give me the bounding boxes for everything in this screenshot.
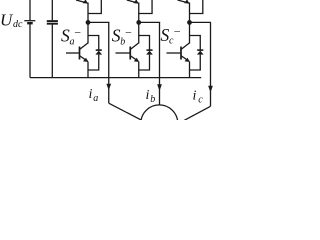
- label ib: [146, 88, 156, 105]
- wire leg b vertical: [138, 3, 140, 44]
- node A junction dot: [86, 20, 91, 25]
- diode Da+ loop wire: [88, 0, 101, 14]
- current arrow ic: [208, 86, 213, 93]
- svg-text:c: c: [198, 94, 203, 105]
- wire Sa- emitter vertical: [87, 62, 89, 78]
- diode Db- triangle: [146, 51, 153, 55]
- diode Dc+ loop wire: [190, 0, 203, 14]
- transistor Sa+ emitter wire (cut at top): [76, 0, 88, 3]
- wire leg c vertical: [189, 3, 191, 44]
- transistor Sb- collector diagonal: [131, 43, 139, 49]
- transistor Sc- collector diagonal: [181, 43, 189, 49]
- transistor Sb- emitter diagonal: [131, 56, 139, 61]
- transistor Sa- emitter arrow: [83, 58, 88, 62]
- label Sb-: [112, 25, 133, 47]
- wire phase c horizontal: [190, 21, 211, 23]
- battery V1 negative plate: [27, 22, 33, 24]
- transistor Sc+ emitter arrow: [184, 0, 189, 4]
- wire Sb- emitter vertical: [138, 62, 140, 78]
- node C junction dot: [187, 20, 192, 25]
- transistor Sc- gate lead: [167, 52, 181, 54]
- wire phase b horizontal: [139, 21, 160, 23]
- diode Db+ loop wire: [139, 0, 152, 14]
- svg-text:b: b: [150, 94, 155, 105]
- label Sc-: [161, 25, 182, 47]
- svg-text:−: −: [173, 25, 181, 39]
- label ia: [89, 87, 99, 104]
- transistor Sb- gate bar: [129, 47, 131, 60]
- wire phase c vertical: [210, 22, 212, 106]
- wire leg a vertical: [87, 3, 89, 44]
- label U_dc: [0, 10, 23, 30]
- node B junction dot: [136, 20, 141, 25]
- svg-text:i: i: [193, 88, 197, 103]
- diode Db- branch top wire: [139, 36, 150, 51]
- transistor Sc- emitter arrow: [185, 58, 190, 62]
- diode Da- triangle: [95, 51, 102, 55]
- diode Dc- branch bottom wire: [190, 55, 201, 70]
- transistor Sc- emitter diagonal: [181, 56, 189, 61]
- wire phase b vertical: [159, 22, 161, 105]
- transistor Sc+ emitter wire (cut at top): [178, 0, 190, 3]
- transistor Sa+ emitter arrow: [83, 0, 88, 4]
- wire Sc- emitter vertical: [189, 62, 191, 78]
- diode Da- cathode bar: [96, 49, 102, 51]
- diode Dc- branch top wire: [190, 36, 201, 51]
- motor M circle: [141, 105, 178, 142]
- transistor Sb+ emitter wire (cut at top): [127, 0, 139, 3]
- transistor Sa- gate bar: [79, 47, 81, 60]
- svg-text:i: i: [146, 88, 150, 103]
- wire capacitor bottom: [51, 25, 53, 78]
- wire phase a horizontal: [88, 21, 109, 23]
- bottom dc bus wire: [30, 77, 201, 79]
- wire capacitor top: [51, 0, 53, 20]
- diode Da- branch top wire: [88, 36, 99, 51]
- svg-text:−: −: [124, 25, 132, 39]
- transistor Sa- collector diagonal: [80, 43, 88, 49]
- diode Dc- triangle: [197, 51, 204, 55]
- svg-text:i: i: [89, 87, 93, 102]
- wire phase a diagonal to motor: [109, 103, 141, 120]
- svg-text:U: U: [0, 10, 14, 29]
- diode Db- branch bottom wire: [139, 55, 150, 70]
- svg-text:a: a: [93, 93, 98, 104]
- current arrow ia: [106, 84, 111, 91]
- diode Dc- cathode bar: [197, 49, 203, 51]
- wire battery bottom: [29, 24, 31, 78]
- capacitor C1 top plate: [47, 20, 58, 22]
- diode Da- branch bottom wire: [88, 55, 99, 70]
- battery V1 positive plate: [24, 20, 35, 22]
- diode Db- cathode bar: [146, 49, 152, 51]
- wire battery top: [29, 0, 31, 20]
- transistor Sc- gate bar: [180, 47, 182, 60]
- svg-text:−: −: [74, 25, 82, 39]
- wire phase a vertical: [108, 22, 110, 103]
- capacitor C1 bottom plate: [47, 23, 58, 25]
- current arrow ib: [157, 84, 162, 91]
- svg-text:dc: dc: [13, 19, 23, 30]
- transistor Sb- gate lead: [116, 52, 130, 54]
- transistor Sa- gate lead: [66, 52, 79, 54]
- transistor Sb- emitter arrow: [134, 58, 139, 62]
- wire phase c diagonal to motor: [184, 106, 210, 120]
- transistor Sb+ emitter arrow: [133, 0, 138, 4]
- label ic: [193, 88, 204, 105]
- transistor Sa- emitter diagonal: [80, 56, 88, 61]
- label Sa-: [61, 25, 82, 47]
